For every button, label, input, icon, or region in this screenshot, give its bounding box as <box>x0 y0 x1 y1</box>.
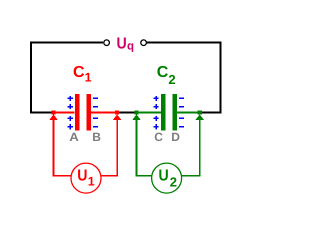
wire bottom black middle <box>117 112 137 114</box>
wire bottom black right <box>200 112 222 114</box>
minus signs C2 <box>179 98 184 126</box>
wire red down-left to source U1 <box>54 120 72 176</box>
wire green right of C2 <box>177 111 200 113</box>
svg-text:C: C <box>73 64 85 81</box>
node junction left (red) <box>51 110 55 114</box>
capacitor C2 plate C <box>161 94 165 130</box>
svg-text:D: D <box>171 130 180 144</box>
svg-text:1: 1 <box>85 70 92 84</box>
source U1 circle <box>71 163 101 193</box>
svg-text:q: q <box>127 40 134 52</box>
node junction right of C2 (green) <box>198 110 202 114</box>
capacitor C1 plate A <box>75 94 79 130</box>
source U2 circle <box>152 163 182 193</box>
arrow U1 left <box>49 114 58 120</box>
arrow U2 right <box>195 114 204 120</box>
svg-text:B: B <box>92 130 101 144</box>
svg-text:U: U <box>159 168 169 185</box>
svg-text:C: C <box>154 130 163 144</box>
minus signs C1 <box>93 98 98 126</box>
wire red down-right to source U1 <box>102 120 118 176</box>
arrow U1 right <box>113 114 122 120</box>
svg-text:A: A <box>69 130 79 144</box>
wire bottom black left <box>30 112 52 114</box>
svg-text:2: 2 <box>170 174 177 189</box>
wire top-left + left vertical <box>31 43 103 114</box>
wire top-right + right vertical <box>147 43 221 114</box>
wire green down-right to source U2 <box>182 120 200 176</box>
svg-text:1: 1 <box>88 175 95 189</box>
terminal T2 <box>141 40 147 46</box>
wire green down-left to source U2 <box>137 120 153 176</box>
node junction left of C2 (green) <box>134 110 138 114</box>
svg-text:U: U <box>117 35 127 52</box>
capacitor C1 plate B <box>87 94 92 130</box>
wire green left of C2 <box>136 111 161 113</box>
arrow U2 left <box>132 114 141 120</box>
svg-text:2: 2 <box>168 72 175 87</box>
wire red right of C1 <box>91 111 118 113</box>
plus signs C2 <box>154 96 159 130</box>
wire red left of C1 <box>52 111 75 113</box>
node junction right of C1 (red) <box>115 110 119 114</box>
svg-text:U: U <box>77 168 87 185</box>
terminal T1 <box>104 40 110 46</box>
plus signs C1 <box>68 96 73 130</box>
svg-text:C: C <box>157 64 169 81</box>
capacitor C2 plate D <box>173 94 177 130</box>
